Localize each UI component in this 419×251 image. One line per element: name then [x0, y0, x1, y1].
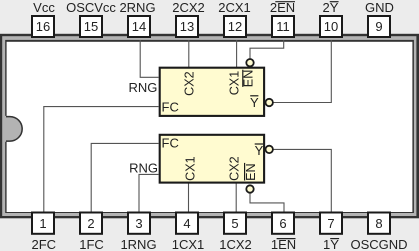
wire pin1 to 2FC input	[44, 107, 159, 212]
overline of EN (block 2)	[242, 70, 244, 87]
svg-text:3: 3	[135, 216, 142, 231]
pin 12 box	[224, 16, 246, 37]
pin 8 box	[368, 213, 390, 234]
svg-text:13: 13	[180, 19, 194, 34]
svg-text:2: 2	[87, 216, 94, 231]
svg-text:10: 10	[324, 19, 338, 34]
inversion bubble 1EN	[246, 185, 253, 192]
overline of Y (block 1)	[255, 143, 263, 145]
pin 3 box	[128, 213, 150, 234]
svg-text:7: 7	[327, 216, 334, 231]
wire pin11 to 2EN bubble	[250, 40, 284, 59]
svg-text:12: 12	[228, 19, 242, 34]
wire pin10 to 2Y bubble	[266, 40, 332, 103]
inversion bubble 2EN	[246, 59, 253, 66]
pin 13 box	[176, 16, 198, 37]
pin 16 box	[32, 16, 54, 37]
overline of EN (block 1)	[244, 163, 246, 181]
svg-text:1RNG: 1RNG	[120, 237, 156, 251]
wire pin6 to 1EN bubble	[250, 193, 284, 212]
IC package body inner outline	[5, 40, 414, 213]
wire pin2 to 1FC input	[91, 143, 158, 212]
svg-text:CX1: CX1	[227, 71, 241, 96]
svg-text:CX1: CX1	[183, 156, 197, 181]
svg-text:15: 15	[84, 19, 98, 34]
IC package body gray band	[2, 36, 416, 216]
svg-text:4: 4	[183, 216, 190, 231]
svg-text:OSCVcc: OSCVcc	[66, 0, 116, 15]
svg-text:CX2: CX2	[228, 156, 242, 181]
svg-text:2RNG: 2RNG	[119, 0, 155, 15]
svg-text:1CX1: 1CX1	[172, 237, 205, 251]
pin 9 box	[368, 16, 390, 37]
oscillator block 1 (bottom)	[160, 135, 264, 183]
svg-text:Y: Y	[255, 143, 264, 158]
wire pin14 to 2RNG input	[140, 40, 158, 77]
wire pin12 to 2CX1 input	[236, 40, 238, 67]
svg-text:RNG: RNG	[129, 161, 158, 176]
svg-text:9: 9	[375, 19, 382, 34]
inversion bubble 2Y	[266, 99, 273, 106]
svg-text:2CX1: 2CX1	[218, 0, 251, 15]
svg-text:1FC: 1FC	[79, 237, 104, 251]
pin 4 box	[176, 213, 198, 234]
svg-text:EN: EN	[244, 163, 258, 181]
svg-text:16: 16	[36, 19, 50, 34]
pin 1 box	[32, 213, 54, 234]
svg-text:5: 5	[231, 216, 238, 231]
wire pin13 to 2CX2 input	[188, 40, 190, 67]
wire pin5 to 1CX2 input	[235, 183, 237, 212]
pin 10 box	[320, 16, 342, 37]
overline of Y (block 2)	[250, 95, 258, 97]
svg-text:Y: Y	[250, 95, 259, 110]
pin 15 box	[80, 16, 102, 37]
svg-text:2FC: 2FC	[32, 237, 57, 251]
wire pin7 to 1Y bubble	[266, 149, 332, 212]
svg-text:1CX2: 1CX2	[219, 237, 252, 251]
pin 7 box	[320, 213, 342, 234]
inversion bubble 1Y	[266, 146, 273, 153]
svg-text:CX2: CX2	[183, 71, 197, 96]
svg-text:2CX2: 2CX2	[172, 0, 205, 15]
svg-text:11: 11	[276, 19, 290, 34]
pin 2 box	[80, 213, 102, 234]
svg-text:FC: FC	[162, 100, 179, 115]
pin 6 box	[272, 213, 294, 234]
pin 14 box	[128, 16, 150, 37]
pin 5 box	[224, 213, 246, 234]
svg-text:OSCGND: OSCGND	[350, 237, 407, 251]
svg-text:FC: FC	[162, 136, 179, 151]
pin-1 index notch	[4, 116, 23, 142]
pin 11 box	[272, 16, 294, 37]
IC package interior	[7, 42, 413, 212]
svg-text:RNG: RNG	[129, 80, 158, 95]
IC package body outer outline	[0, 34, 419, 219]
svg-text:6: 6	[279, 216, 286, 231]
svg-text:Vcc: Vcc	[33, 0, 55, 15]
svg-text:1: 1	[39, 216, 46, 231]
oscillator block 2 (top)	[160, 68, 264, 116]
wire pin4 to 1CX1 input	[188, 183, 190, 212]
svg-text:GND: GND	[365, 0, 394, 15]
svg-text:8: 8	[375, 216, 382, 231]
svg-text:14: 14	[132, 19, 146, 34]
svg-text:EN: EN	[242, 70, 256, 88]
wire pin3 to 1RNG input	[139, 174, 159, 212]
